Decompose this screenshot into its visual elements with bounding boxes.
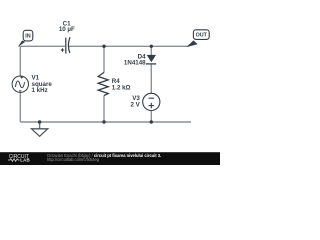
wire: top rail R4 node to D4 node xyxy=(104,45,151,47)
wire: D4 to V3 xyxy=(150,65,152,94)
svg-text:10 µF: 10 µF xyxy=(59,26,75,33)
wire: R4 bottom lead xyxy=(103,96,105,122)
wire: D4 top lead xyxy=(150,46,152,55)
node junction R4 bottom xyxy=(102,120,105,123)
wire: bottom rail xyxy=(20,121,191,123)
wire: top rail C1 to R4 node xyxy=(69,45,104,47)
footer logo resistor zigzag xyxy=(8,159,20,162)
wire: V1 bottom to ground rail xyxy=(19,93,21,123)
wire: top rail D4 node to OUT bend xyxy=(151,44,191,47)
svg-text:1N4148: 1N4148 xyxy=(124,59,146,66)
svg-text:1 kHz: 1 kHz xyxy=(32,87,48,94)
svg-text:2 V: 2 V xyxy=(131,102,141,109)
node junction at D4 top xyxy=(150,45,153,48)
node junction V3 bottom xyxy=(150,120,153,123)
wire: top rail left of C1 xyxy=(19,45,65,47)
wire: IN riser to V1 top xyxy=(19,46,21,76)
svg-text:http://circuitlab.com/c/tx54eg: http://circuitlab.com/c/tx54eg xyxy=(47,157,100,162)
node junction ground xyxy=(38,120,41,123)
node junction at R4 top xyxy=(102,45,105,48)
flag IN xyxy=(18,30,33,47)
wire: R4 top lead xyxy=(103,46,105,72)
voltage source V3 xyxy=(143,93,160,110)
wire: ground stub xyxy=(39,122,41,129)
svg-text:OUT: OUT xyxy=(196,33,208,39)
svg-text:IN: IN xyxy=(25,34,31,40)
svg-text:1.2 kΩ: 1.2 kΩ xyxy=(112,85,131,92)
resistor R4 xyxy=(98,72,108,95)
footer bar xyxy=(0,152,220,165)
ground xyxy=(32,129,48,137)
voltage source V1 xyxy=(12,76,28,93)
wire: V3 bottom lead xyxy=(150,111,152,123)
svg-text:LAB: LAB xyxy=(20,158,30,163)
diode D4 xyxy=(146,55,156,64)
flag OUT xyxy=(186,30,209,47)
capacitor C1 xyxy=(61,37,70,53)
